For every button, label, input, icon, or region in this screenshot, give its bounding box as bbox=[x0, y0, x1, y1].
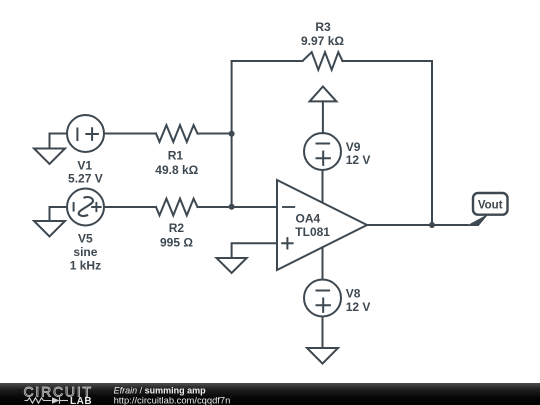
voltage source V9 bbox=[304, 133, 341, 170]
wire vertical feedback branch bbox=[231, 61, 233, 207]
wire R1 to node A bbox=[198, 133, 232, 135]
svg-text:V5: V5 bbox=[78, 232, 93, 246]
resistor R2 bbox=[156, 199, 198, 216]
wire non-inverting input to ground bbox=[232, 243, 277, 258]
svg-text:R1: R1 bbox=[168, 148, 184, 162]
wire arrow to V9 bbox=[322, 101, 324, 133]
svg-text:V8: V8 bbox=[346, 287, 361, 301]
svg-text:LAB: LAB bbox=[70, 396, 92, 405]
svg-text:1 kHz: 1 kHz bbox=[70, 259, 101, 273]
ground GND3 (below + input) bbox=[217, 258, 247, 273]
op-amp OA4 bbox=[277, 180, 367, 270]
resistor R1 bbox=[156, 125, 198, 142]
voltage source V8 bbox=[304, 280, 341, 317]
svg-text:995 Ω: 995 Ω bbox=[160, 236, 193, 250]
svg-text:http://circuitlab.com/cqqdf7n: http://circuitlab.com/cqqdf7n bbox=[114, 394, 231, 405]
svg-text:5.27 V: 5.27 V bbox=[68, 172, 103, 186]
node A junction dot bbox=[229, 131, 235, 137]
svg-text:12 V: 12 V bbox=[346, 153, 371, 167]
node B junction dot bbox=[229, 204, 235, 210]
footer bar bbox=[0, 383, 540, 405]
wire R3 to right corner bbox=[343, 60, 433, 62]
CircuitLab logo resistor-diode glyph bbox=[25, 397, 69, 404]
svg-text:9.97 kΩ: 9.97 kΩ bbox=[301, 34, 344, 48]
Vout flag pointer bbox=[466, 214, 489, 227]
voltage source V5 (sine) bbox=[67, 189, 104, 226]
Vout label box bbox=[473, 193, 508, 215]
ground GND2 (left of V5) bbox=[34, 221, 65, 237]
svg-text:OA4: OA4 bbox=[296, 212, 321, 226]
wire op-amp V- pin to V8 bbox=[322, 247, 324, 279]
wire V1 to R1 bbox=[104, 133, 156, 135]
wire V1 to left bend down bbox=[50, 134, 68, 149]
power arrow above V9 bbox=[310, 87, 337, 102]
svg-text:12 V: 12 V bbox=[346, 300, 371, 314]
node Vout junction dot bbox=[429, 222, 435, 228]
svg-text:TL081: TL081 bbox=[295, 225, 330, 239]
svg-text:R3: R3 bbox=[315, 20, 331, 34]
wire V8 to ground bbox=[322, 317, 324, 349]
wire V9 to op-amp V+ pin bbox=[322, 170, 324, 203]
svg-text:sine: sine bbox=[73, 245, 97, 259]
voltage source V1 bbox=[67, 115, 104, 152]
ground GND4 (below V8) bbox=[307, 348, 338, 364]
resistor R3 bbox=[303, 52, 343, 70]
wire op-amp output bbox=[367, 224, 468, 226]
circuit text labels group bbox=[68, 20, 503, 314]
svg-text:49.8 kΩ: 49.8 kΩ bbox=[155, 163, 198, 177]
svg-text:V9: V9 bbox=[346, 140, 361, 154]
wire V5 to left bend down bbox=[50, 207, 67, 221]
svg-text:Vout: Vout bbox=[478, 200, 503, 212]
ground GND1 (left of V1) bbox=[34, 149, 65, 165]
wire V5 to R2 bbox=[105, 206, 157, 208]
svg-text:V1: V1 bbox=[77, 158, 92, 172]
wire right vertical down to output bbox=[431, 61, 433, 225]
wire R2 to op-amp inverting input bbox=[198, 206, 278, 208]
wire top left to R3 bbox=[232, 60, 303, 62]
svg-text:R2: R2 bbox=[169, 221, 185, 235]
